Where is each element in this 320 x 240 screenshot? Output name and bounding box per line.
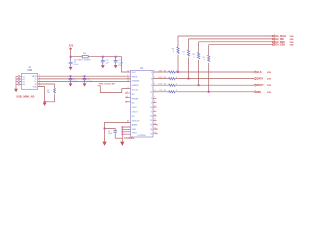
svg-text:FTDI_VCCIO_EN: FTDI_VCCIO_EN xyxy=(99,84,115,86)
wire to FPGA_SDO xyxy=(199,41,272,43)
U1 ground pins tie xyxy=(122,127,130,142)
ground (C3) xyxy=(69,67,73,70)
svg-text:3V8: 3V8 xyxy=(267,85,272,87)
svg-text:0: 0 xyxy=(194,56,195,58)
svg-text:13: 13 xyxy=(154,123,156,125)
svg-text:0: 0 xyxy=(176,77,177,79)
wire 3V3OUT xyxy=(105,123,131,142)
svg-text:14: 14 xyxy=(154,128,156,130)
wire RXD row xyxy=(153,78,253,80)
svg-text:10nF: 10nF xyxy=(108,133,113,135)
junction VBUS C1 xyxy=(70,75,72,77)
wire USBDM J1 to U1 xyxy=(38,78,131,80)
svg-text:4.7uF: 4.7uF xyxy=(73,64,79,66)
connector J1 USB_MINI_AB xyxy=(16,66,38,98)
net label FPGA_SDO xyxy=(272,41,295,44)
ground (C1) xyxy=(69,83,73,86)
svg-text:0: 0 xyxy=(184,54,185,56)
wire GND pin down xyxy=(38,87,45,102)
svg-text:FT232RL: FT232RL xyxy=(125,137,136,140)
svg-text:12: 12 xyxy=(154,132,156,134)
net label SDOUT xyxy=(253,84,272,87)
junction RTS / R8 xyxy=(198,84,200,86)
junction C6 xyxy=(104,128,106,130)
svg-text:1uF: 1uF xyxy=(106,63,110,65)
resistor R1 (ID pulldown) xyxy=(47,88,55,94)
capacitor C6 10nF xyxy=(108,131,117,139)
svg-text:RESET: RESET xyxy=(132,98,139,100)
capacitor C5 0.1uF xyxy=(114,57,124,67)
svg-text:16: 16 xyxy=(127,77,129,79)
svg-text:10: 10 xyxy=(154,106,156,108)
U1 left pin names xyxy=(132,72,147,137)
svg-text:15: 15 xyxy=(127,80,129,82)
junction RXD / R7 xyxy=(188,78,190,80)
wire TXD row xyxy=(153,71,253,73)
svg-text:0: 0 xyxy=(176,84,177,86)
capacitor C4 1uF xyxy=(101,57,110,65)
wire to FPGA_SCLK xyxy=(178,35,272,37)
U1 right pin numbers inside xyxy=(150,72,153,135)
svg-text:4: 4 xyxy=(128,87,129,89)
svg-text:0: 0 xyxy=(204,59,205,61)
svg-text:U1: U1 xyxy=(140,67,144,70)
net label FPGA_CSN xyxy=(272,44,295,47)
junction CTS / R9 xyxy=(208,91,210,93)
power flag 3V3 xyxy=(69,44,74,56)
IC U1 FT232RL xyxy=(125,67,154,140)
U1 left pin numbers xyxy=(127,70,129,123)
capacitor C1 10nF xyxy=(69,76,79,83)
no-connect marks right xyxy=(156,124,158,134)
svg-text:3V3: 3V3 xyxy=(69,44,74,47)
svg-text:20: 20 xyxy=(127,70,129,72)
junction rail C4 xyxy=(102,56,104,58)
wire R1 to ground xyxy=(45,94,55,102)
svg-text:FPGA_SDI: FPGA_SDI xyxy=(272,38,284,41)
wire FTDI_VCCIO_EN to U1 pin 4 xyxy=(98,86,131,93)
ground (C4) xyxy=(101,65,105,68)
resistor R8 xyxy=(192,42,199,85)
resistor R2 xyxy=(169,71,175,73)
svg-text:GND: GND xyxy=(132,129,137,131)
svg-text:USB: USB xyxy=(27,69,32,72)
wire to C6 xyxy=(105,129,116,131)
junction xyxy=(44,101,46,103)
svg-text:SDOUT: SDOUT xyxy=(255,84,264,87)
ground (C2) xyxy=(83,83,87,86)
svg-text:USBDM: USBDM xyxy=(132,81,140,83)
svg-text:SDIN: SDIN xyxy=(255,91,261,94)
ground (C5) xyxy=(114,65,118,68)
wire 3V3 rail xyxy=(71,57,131,72)
svg-text:VCC: VCC xyxy=(132,72,137,74)
svg-text:3V8: 3V8 xyxy=(290,39,295,41)
svg-text:3V8: 3V8 xyxy=(267,92,272,94)
resistor R4 xyxy=(169,84,175,86)
svg-text:USBDP: USBDP xyxy=(132,85,140,87)
wire RTS row xyxy=(153,84,253,86)
svg-text:4.7uF: 4.7uF xyxy=(87,81,93,83)
svg-text:0: 0 xyxy=(176,90,177,92)
svg-text:3V8: 3V8 xyxy=(290,36,295,38)
svg-text:FB1: FB1 xyxy=(83,53,86,55)
U1 right lower stubs xyxy=(153,98,157,133)
no-connect marks left xyxy=(125,92,127,102)
ground (3V3OUT) xyxy=(102,142,106,146)
svg-text:AGND: AGND xyxy=(132,124,138,127)
wire to FPGA_CSN xyxy=(209,44,272,46)
svg-text:1M: 1M xyxy=(47,92,50,94)
J1 shield stubs and tie wire xyxy=(16,77,22,89)
svg-text:23: 23 xyxy=(154,114,156,116)
wire USBDP J1 to U1 xyxy=(38,81,131,83)
net label FPGA_SDI xyxy=(272,38,295,41)
net label SDIN xyxy=(253,91,272,94)
svg-text:3V8: 3V8 xyxy=(290,45,295,47)
U1 right lower pin numbers xyxy=(154,97,156,134)
wire VBUS J1 to U1 xyxy=(38,75,131,77)
svg-text:22: 22 xyxy=(154,119,156,121)
U1 left unused stubs xyxy=(126,93,130,102)
svg-text:3V8: 3V8 xyxy=(267,79,272,81)
junction dots gnd bar xyxy=(122,126,124,135)
junction rail C5 xyxy=(115,56,117,58)
resistor R5 xyxy=(169,91,175,93)
junction rail C3 xyxy=(70,56,72,58)
svg-text:40 OHM @ 100MHZ: 40 OHM @ 100MHZ xyxy=(74,60,91,62)
svg-text:VBUS: VBUS xyxy=(132,76,138,78)
svg-text:0: 0 xyxy=(176,70,177,72)
svg-text:0: 0 xyxy=(173,51,174,53)
ferrite bead FB1 xyxy=(74,53,91,61)
svg-text:OSCI: OSCI xyxy=(132,107,137,109)
resistor R6 xyxy=(172,36,179,72)
J1 shield pins (left circles) xyxy=(18,76,20,86)
svg-text:SDATA: SDATA xyxy=(255,78,263,81)
junction VBUS C2 xyxy=(84,75,86,77)
net label FPGA_SCLK xyxy=(272,35,295,38)
ground (J1 shield) xyxy=(14,89,18,92)
junction TXD / R6 xyxy=(177,71,179,73)
net label SDATA xyxy=(253,77,272,80)
wire to FPGA_SDI xyxy=(189,38,272,40)
wire ID pin to R1 xyxy=(38,84,55,88)
capacitor C2 4.7uF xyxy=(83,76,93,83)
svg-text:OSCO: OSCO xyxy=(132,112,138,114)
svg-text:SCLK: SCLK xyxy=(255,71,262,74)
svg-text:VCCIO: VCCIO xyxy=(132,90,139,92)
ground (U1 GND) xyxy=(120,142,124,146)
svg-text:USB_MINI_AB: USB_MINI_AB xyxy=(16,94,34,98)
svg-text:FT232RL: FT232RL xyxy=(138,135,147,137)
svg-text:3V8: 3V8 xyxy=(267,72,272,74)
ground (USB) xyxy=(43,103,47,106)
svg-text:FPGA_CSN: FPGA_CSN xyxy=(272,44,285,47)
J1 inner pin names xyxy=(22,76,37,88)
svg-text:3V3OUT: 3V3OUT xyxy=(132,120,141,122)
wire CTS row xyxy=(153,91,253,93)
resistor R9 xyxy=(203,45,210,92)
svg-text:3V8: 3V8 xyxy=(290,42,295,44)
resistor R7 xyxy=(182,39,189,79)
resistor R3 xyxy=(169,78,175,80)
capacitor C3 4.7uF xyxy=(69,57,79,67)
wire C6 to gnd bar xyxy=(115,137,122,139)
svg-text:17: 17 xyxy=(127,121,129,123)
svg-text:G4: G4 xyxy=(22,84,25,86)
net label SCLK xyxy=(253,71,272,74)
J1 right pin numbers xyxy=(39,75,40,87)
svg-text:GND: GND xyxy=(33,86,38,88)
svg-text:1: 1 xyxy=(127,75,128,77)
